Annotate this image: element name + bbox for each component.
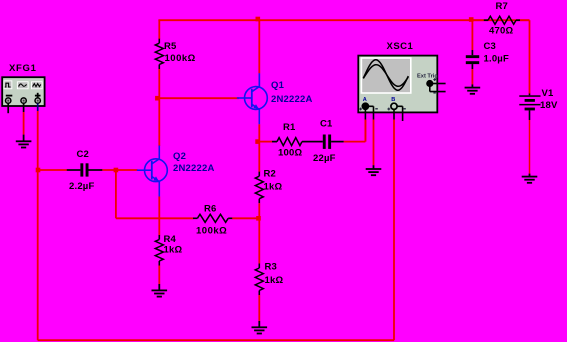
wire R5 to base node — [158, 69, 160, 98]
XSC1 waveform channel B trace — [363, 65, 408, 87]
XFG1 minus terminal — [6, 98, 11, 113]
resistor R3 — [255, 264, 263, 296]
wire Q1 emitter to node — [258, 124, 260, 141]
Q2 type 2N2222A — [173, 163, 215, 174]
R6 value 100kΩ — [196, 225, 227, 236]
wire node to R2 — [258, 143, 260, 172]
wire input node to C2 — [39, 169, 67, 171]
svg-text:1kΩ: 1kΩ — [264, 181, 283, 192]
junction R2/R3 node — [256, 216, 261, 221]
C2 label — [77, 149, 90, 160]
XFG1 common terminal — [21, 98, 26, 112]
wire XFG1 output down to bottom rail — [37, 111, 39, 340]
C3 label — [484, 41, 497, 52]
svg-text:Q2: Q2 — [173, 151, 186, 162]
XSC1 waveform channel A trace — [363, 60, 408, 90]
resistor R1 — [259, 138, 313, 146]
wire Q2 collector — [158, 98, 160, 146]
svg-text:1kΩ: 1kΩ — [164, 245, 183, 256]
XFG1 plus mark — [35, 93, 41, 99]
svg-text:Q1: Q1 — [271, 80, 285, 91]
svg-text:2N2222A: 2N2222A — [271, 94, 313, 105]
capacitor C2 — [67, 163, 103, 176]
capacitor C1 — [313, 135, 344, 149]
R1 value 100Ω — [278, 147, 302, 158]
wire R3 to ground — [258, 295, 260, 321]
resistor R5 — [155, 39, 163, 69]
junction Q1 emitter / R1 / R2 — [255, 139, 260, 144]
R7 value 470Ω — [489, 25, 513, 36]
XSC1 channel B label — [391, 97, 395, 103]
wire C2 to Q2 base — [102, 169, 137, 171]
wire C1 to scope channel A — [344, 120, 366, 142]
svg-text:R6: R6 — [204, 204, 217, 215]
transistor Q2 — [137, 146, 167, 197]
ground scope A- — [366, 165, 382, 175]
wire C3 to ground — [471, 69, 473, 84]
svg-text:2.2µF: 2.2µF — [69, 181, 94, 192]
R3 value 1kΩ — [265, 275, 284, 286]
R7 label — [496, 1, 509, 12]
junction C3 at rail — [469, 17, 474, 22]
function generator XFG1 — [2, 77, 44, 106]
R6 label — [204, 204, 217, 215]
C3 value 1.0µF — [484, 53, 509, 64]
svg-text:18V: 18V — [540, 100, 558, 111]
ground R3 — [252, 321, 268, 334]
wire feedback left segment — [116, 217, 194, 219]
XSC1 channel A label — [363, 97, 367, 103]
wire rail down to R5 — [158, 20, 160, 39]
R3 label — [265, 261, 278, 272]
bottom signal wire — [38, 339, 394, 341]
resistor R7 — [473, 16, 520, 24]
ground V1 — [522, 174, 538, 183]
svg-text:R1: R1 — [283, 122, 296, 133]
svg-text:C3: C3 — [484, 41, 497, 52]
wire scope B+ down to bottom rail — [393, 120, 395, 341]
R1 label — [283, 122, 296, 133]
svg-text:100kΩ: 100kΩ — [165, 53, 196, 64]
Q2 label — [173, 151, 186, 162]
wire R2 to node — [258, 203, 260, 218]
svg-text:A: A — [363, 97, 367, 103]
XFG1 plus terminal — [35, 98, 40, 111]
svg-text:C1: C1 — [320, 118, 333, 129]
wire R6 to R2/R3 node — [232, 217, 259, 219]
XSC1 ext trig terminal — [427, 78, 446, 93]
C1 label — [320, 118, 333, 129]
svg-text:2N2222A: 2N2222A — [173, 163, 215, 174]
svg-text:R7: R7 — [496, 1, 509, 12]
svg-text:R5: R5 — [164, 41, 177, 52]
wire V1 to ground — [529, 120, 531, 174]
junction input node — [36, 168, 41, 173]
R5 label — [164, 41, 177, 52]
R2 value 1kΩ — [264, 181, 283, 192]
C1 value 22µF — [313, 153, 336, 164]
svg-text:R2: R2 — [264, 168, 277, 179]
oscilloscope XSC1 — [358, 56, 437, 113]
wire rail to C3 — [471, 20, 473, 50]
Q1 label — [271, 80, 285, 91]
resistor R6 — [193, 214, 233, 222]
XFG1 label — [9, 63, 37, 74]
junction Q1 collector at rail — [256, 17, 261, 22]
wire base node to Q1 base — [158, 97, 239, 99]
svg-text:R4: R4 — [164, 234, 177, 245]
capacitor C3 — [466, 50, 479, 69]
R4 value 1kΩ — [164, 245, 183, 256]
wire R7 to V1 — [520, 20, 530, 93]
wire base node down to feedback line — [115, 171, 117, 218]
XSC1 channel B terminals — [387, 103, 405, 121]
junction R5 / Q1 base / Q2 collector — [155, 96, 160, 101]
svg-text:1kΩ: 1kΩ — [265, 275, 284, 286]
svg-text:V1: V1 — [542, 88, 555, 99]
wire scope A+ down to C1 — [364, 120, 366, 142]
XSC1 label — [387, 41, 414, 52]
svg-text:XSC1: XSC1 — [387, 41, 414, 52]
svg-text:XFG1: XFG1 — [9, 63, 37, 74]
svg-text:1.0µF: 1.0µF — [484, 53, 509, 64]
V1 label — [542, 88, 555, 99]
XFG1 minus mark — [6, 95, 13, 97]
junction Q2 base node — [114, 168, 119, 173]
battery V1 — [519, 94, 540, 121]
C2 value 2.2µF — [69, 181, 94, 192]
wire Q1 collector — [258, 20, 260, 87]
transistor Q1 — [237, 73, 267, 124]
top power rail wire — [158, 19, 529, 21]
svg-text:C2: C2 — [77, 149, 90, 160]
wire scope A- to ground — [373, 120, 375, 166]
svg-text:R3: R3 — [265, 261, 278, 272]
XSC1 Ext Trig label — [417, 73, 438, 79]
svg-text:B: B — [391, 97, 395, 103]
R4 label — [164, 234, 177, 245]
R5 value 100kΩ — [165, 53, 196, 64]
Q1 type 2N2222A — [271, 94, 313, 105]
svg-text:100Ω: 100Ω — [278, 147, 302, 158]
svg-text:100kΩ: 100kΩ — [196, 225, 227, 236]
wire R4 to ground — [158, 266, 160, 285]
wire node to R3 — [258, 218, 260, 263]
wire Q2 emitter to R4 — [158, 197, 160, 236]
R2 label — [264, 168, 277, 179]
XSC1 channel A terminals — [359, 103, 378, 119]
wire XFG1 common to ground — [23, 112, 25, 135]
svg-text:470Ω: 470Ω — [489, 25, 513, 36]
resistor R4 — [155, 235, 163, 266]
V1 value 18V — [540, 100, 558, 111]
ground C3 — [465, 84, 481, 93]
ground XFG1 — [16, 135, 32, 148]
svg-text:22µF: 22µF — [313, 153, 336, 164]
ground R4 — [152, 284, 168, 297]
resistor R2 — [255, 172, 263, 204]
